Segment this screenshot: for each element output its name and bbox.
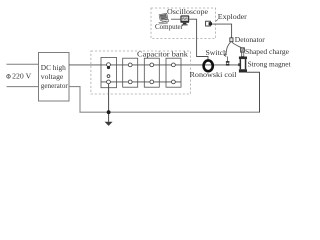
ground lead from C1 (108, 84, 110, 122)
svg-text:Exploder: Exploder (218, 12, 248, 21)
exploder icon (206, 21, 212, 26)
svg-text:Shaped charge: Shaped charge (245, 47, 289, 56)
svg-text:DC high: DC high (41, 63, 66, 72)
instrumentation dashed enclosure (151, 8, 216, 39)
wire: mains bottom (7, 86, 39, 88)
computer icon (159, 13, 169, 24)
junction dot (107, 110, 111, 114)
svg-text:Strong magnet: Strong magnet (248, 59, 291, 68)
svg-text:Oscilloscope: Oscilloscope (167, 7, 208, 16)
svg-text:Ronowski coil: Ronowski coil (190, 70, 237, 79)
wire: exploder to detonator (212, 24, 232, 37)
switch (detonator-driven closing switch) (224, 55, 229, 65)
wire: main top bus from DC generator to magnet (69, 64, 240, 66)
shaped charge (241, 48, 245, 52)
wire: mains top (7, 63, 39, 65)
ground arrow (105, 122, 113, 126)
wire: DC generator low side to return line (69, 87, 109, 113)
capacitor C3 (144, 58, 159, 87)
capacitor C2 (123, 58, 138, 87)
pointer: Exploder label (216, 19, 218, 21)
detonator lead to switch (224, 42, 231, 56)
capacitor C4 (166, 58, 181, 87)
svg-text:Detonator: Detonator (235, 35, 266, 44)
strong magnet (238, 57, 247, 73)
capacitor C1 (with trigger gap) (101, 57, 117, 87)
DC high voltage generator box (39, 53, 70, 102)
AC source 220 V (7, 72, 32, 81)
wire: right riser from magnet to return line (247, 72, 260, 112)
wire: oscilloscope probe to Rogowski coil (189, 19, 208, 59)
wire: ground return line (109, 111, 260, 113)
svg-text:Computer: Computer (155, 22, 184, 31)
capacitor bank dashed enclosure (91, 51, 190, 94)
charge holder neck (241, 52, 243, 56)
svg-text:voltage: voltage (41, 72, 63, 81)
wire: computer to oscilloscope (171, 18, 180, 20)
detonator (230, 38, 233, 42)
capacitor bottom bus (101, 81, 181, 83)
oscilloscope icon (180, 15, 189, 25)
svg-text:Capacitor bank: Capacitor bank (137, 50, 188, 59)
detonator lead to shaped charge (232, 42, 241, 48)
svg-text:generator: generator (41, 81, 69, 90)
Rogowski coil (204, 60, 213, 71)
svg-text:220 V: 220 V (12, 72, 32, 81)
